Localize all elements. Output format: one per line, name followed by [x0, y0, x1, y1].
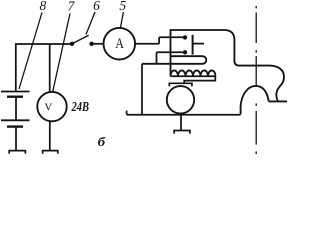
ammeter A (5) [104, 28, 136, 60]
wire: between cells [15, 97, 17, 120]
relay actuator rod [193, 43, 204, 45]
wire: slot node down to frame wire [141, 64, 143, 115]
starter housing outline [171, 30, 285, 101]
wire: armature to ground [180, 114, 182, 131]
svg-text:8: 8 [40, 0, 47, 13]
voltmeter U1 [37, 92, 66, 121]
relay lower contact stud [183, 50, 187, 54]
leader to ammeter [121, 12, 124, 28]
relay upper contact stud [183, 35, 187, 39]
svg-text:5: 5 [119, 0, 126, 13]
svg-text:б: б [98, 134, 106, 149]
field winding L1 [171, 70, 216, 76]
flywheel bump [241, 86, 287, 115]
relay movable contact bar [192, 35, 194, 55]
wire: frame bottom bus [127, 111, 241, 115]
wire: ammeter to relay stud [135, 37, 183, 44]
svg-text:V: V [44, 101, 52, 113]
wire: switch to ammeter [92, 43, 104, 45]
wire: battery feed vertical [15, 44, 17, 91]
wire: battery to ground [15, 127, 17, 150]
battery cell 2 long plate [1, 119, 30, 121]
battery cell 1 short plate [7, 95, 23, 97]
leader to voltmeter [53, 14, 70, 92]
leader to battery [19, 13, 42, 90]
battery GB (8): cell 1 long plate [1, 91, 30, 93]
svg-text:24В: 24В [71, 100, 89, 115]
svg-text:A: A [115, 36, 124, 52]
svg-text:6: 6 [93, 0, 100, 13]
wire: top bus from battery to switch [15, 43, 70, 45]
centerline (dash-dot axis) [255, 6, 257, 154]
wire: voltmeter drop [49, 44, 51, 92]
ground (battery) [8, 151, 26, 154]
wire: lower stud to winding node [157, 52, 184, 64]
ground (armature) [173, 131, 190, 134]
armature M [167, 86, 194, 113]
solenoid body slot [142, 56, 206, 64]
ground (voltmeter) [42, 151, 59, 154]
battery cell 2 short plate [7, 125, 23, 127]
winding baseline [171, 75, 216, 77]
leader to switch [86, 12, 95, 35]
wire: winding end to brush bar [184, 76, 215, 83]
switch S (6): left pole [70, 42, 74, 46]
brush bar [169, 83, 193, 86]
wire: voltmeter to ground [49, 121, 51, 150]
svg-text:7: 7 [68, 0, 76, 14]
switch right pole [89, 42, 93, 46]
switch lever [72, 35, 89, 44]
